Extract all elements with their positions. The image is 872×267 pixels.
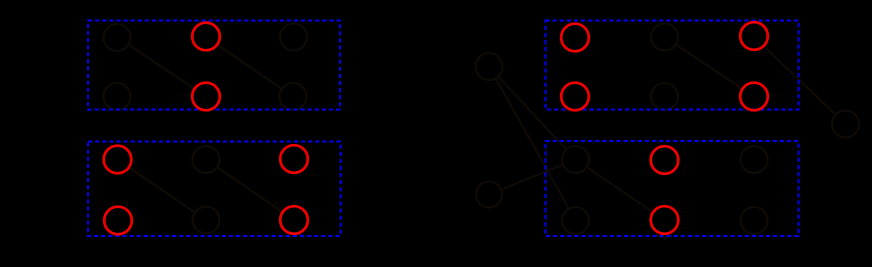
cluster box K2 (blue dashed) xyxy=(546,21,799,110)
highlight ring on node F1 xyxy=(104,207,132,235)
highlight ring on node F3 xyxy=(280,206,308,234)
node B2 (cluster K1 bottom-middle) xyxy=(193,83,220,110)
highlight ring on node D3 xyxy=(740,83,768,111)
node D1 (cluster K2 bottom-left) xyxy=(562,83,589,110)
highlight ring on node C1 xyxy=(561,24,589,52)
node G1 (cluster K4 top-left) xyxy=(562,146,589,173)
node F3 (cluster K3 bottom-right) xyxy=(281,207,308,234)
wire edge G1-h2 (cluster K4) xyxy=(576,160,665,221)
cluster box K3 (blue dashed) xyxy=(88,142,341,237)
node H1 (cluster K4 bottom-left) xyxy=(562,207,589,234)
node A1 (cluster K1 top-left) xyxy=(104,24,131,51)
highlight ring on node D1 xyxy=(561,83,589,111)
wire edge u1-G1 (external node u1 to cluster K4) xyxy=(489,67,576,160)
highlight ring on node B2 xyxy=(192,83,220,111)
highlight ring on node C3 xyxy=(740,22,768,50)
node G3 (cluster K4 top-right) xyxy=(741,146,768,173)
node E2 (cluster K3 top-middle) xyxy=(193,146,220,173)
node B3 (cluster K1 bottom-right) xyxy=(280,83,307,110)
node u2 (external, between K3 and K4) xyxy=(476,182,502,208)
wire edge u2-G1 (external node u2 to cluster K4) xyxy=(489,160,576,195)
node A3 (cluster K1 top-right) xyxy=(280,24,307,51)
node C3 (cluster K2 top-right) xyxy=(741,23,768,50)
wire edge E2-f3 (cluster K3) xyxy=(206,160,294,221)
node H2 (cluster K4 bottom-middle) xyxy=(651,207,678,234)
highlight ring on node G2 xyxy=(651,146,679,174)
node E3 (cluster K3 top-right) xyxy=(281,146,308,173)
wire edge A2-b3 (cluster K1) xyxy=(206,37,293,97)
node F1 (cluster K3 bottom-left) xyxy=(105,207,132,234)
node G2 (cluster K4 top-middle) xyxy=(651,147,678,174)
node E1 (cluster K3 top-left) xyxy=(104,146,131,173)
highlight ring on node A2 xyxy=(192,23,220,51)
node F2 (cluster K3 bottom-middle) xyxy=(193,207,220,234)
wire edge C3-u3 (leaves cluster K2 to external node u3) xyxy=(754,37,846,124)
highlight ring on node E3 xyxy=(280,145,308,173)
cluster box K4 (blue dashed) xyxy=(546,141,799,236)
node C1 (cluster K2 top-left) xyxy=(562,24,589,51)
cluster box K1 (blue dashed) xyxy=(88,21,340,110)
node A2 (cluster K1 top-middle) xyxy=(193,23,220,50)
node u1 (external, between K1 and K2) xyxy=(476,53,503,80)
wire edge u1-H1 (external node u1 to cluster K4) xyxy=(489,67,576,221)
node C2 (cluster K2 top-middle) xyxy=(651,24,678,51)
node H3 (cluster K4 bottom-right) xyxy=(741,207,768,234)
highlight ring on node E1 xyxy=(104,146,132,174)
node u3 (external, right of K2) xyxy=(832,111,859,138)
node D3 (cluster K2 bottom-right) xyxy=(741,83,768,110)
wire edge C2-d3 (cluster K2) xyxy=(665,37,755,97)
wire edge E1-f2 (cluster K3) xyxy=(118,160,207,221)
wire edge A1-b2 (cluster K1) xyxy=(117,37,206,97)
node B1 (cluster K1 bottom-left) xyxy=(104,83,131,110)
node D2 (cluster K2 bottom-middle) xyxy=(651,83,678,110)
highlight ring on node H2 xyxy=(651,206,679,234)
